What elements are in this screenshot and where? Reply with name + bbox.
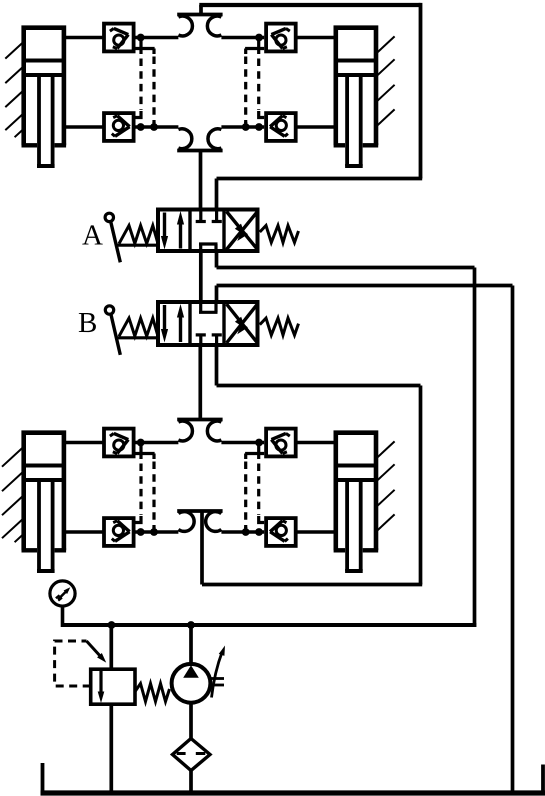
pump body (variable displacement) xyxy=(172,664,211,703)
pump regulator marks xyxy=(210,679,225,686)
filter element (dashed) xyxy=(177,752,206,755)
svg-text:A: A xyxy=(82,220,103,252)
valve A left return spring xyxy=(119,226,158,244)
junction dot pump branch xyxy=(187,621,195,629)
wire V3 outlet to top header xyxy=(221,36,264,40)
pump variable arrow xyxy=(212,646,226,698)
valve A right-position crossed arrow 1 xyxy=(227,212,258,250)
valve B left return spring xyxy=(119,318,158,336)
wire top loop lower horizontal xyxy=(217,177,423,181)
valve A centre blocked P-T bridge xyxy=(199,244,218,251)
wire V8 outlet to lower header xyxy=(221,530,264,534)
wire valve B port A down to lower manifold xyxy=(198,345,202,420)
bottom header manifold (bar and arcs) xyxy=(177,129,222,210)
tank bottom xyxy=(41,790,545,795)
valve A left-position up arrow xyxy=(177,211,184,249)
directional valve A body (3-position 4-way) xyxy=(158,210,258,252)
junction dot lower top rail right xyxy=(255,439,263,447)
pilot-operated check valve V7 (C4 cap-end) xyxy=(266,429,296,457)
wire relief valve inlet riser xyxy=(109,625,113,669)
tank left wall xyxy=(41,763,45,793)
wire top loop right vertical xyxy=(419,3,423,179)
wire V4 outlet to bottom header xyxy=(221,125,264,129)
junction dot lower bottom rail right inner xyxy=(255,528,263,536)
valve B left-position down arrow xyxy=(161,305,168,343)
pilot-operated check valve V3 (C2 cap-end) xyxy=(266,24,296,52)
valve A lever base line xyxy=(117,244,158,247)
valve B left-position up arrow xyxy=(177,304,184,342)
junction dot lower bottom rail left inner xyxy=(137,528,145,536)
wire C4 rod port to V8 xyxy=(296,530,336,534)
relief valve pilot line (dashed) xyxy=(55,641,91,686)
wire filter to tank xyxy=(189,771,193,794)
wire pump to filter xyxy=(189,703,193,740)
wire valve B upper-right elbow up xyxy=(215,286,219,303)
wire valve A port P down (to valve B) xyxy=(199,251,203,302)
top header manifold (bar and arcs) xyxy=(177,5,222,36)
wire V5 outlet to upper header xyxy=(136,441,179,445)
valve A lever arm xyxy=(111,221,121,262)
hydraulic cylinder C3 (lower left, wall-mounted) xyxy=(2,433,66,571)
lower assembly upper manifold (bar and arcs) xyxy=(177,420,222,441)
wire valve B port B elbow down xyxy=(215,345,219,386)
relief valve body xyxy=(91,669,135,704)
wire V2 outlet to bottom header xyxy=(136,125,179,129)
pressure gauge needle xyxy=(56,587,71,600)
wire relief valve outlet to tank xyxy=(109,704,113,793)
wire valve A T elbow down xyxy=(215,251,219,268)
wire lower loop right vertical xyxy=(419,386,423,585)
wire C2 cap port to V3 xyxy=(296,36,336,40)
junction dot lower top rail left xyxy=(137,439,145,447)
relief valve flow arrow xyxy=(98,671,105,703)
valve A centre blocked port B stub xyxy=(212,210,222,222)
pilot-operated check valve V5 (C3 cap-end) xyxy=(104,429,134,457)
valve B right-position crossed arrow 2 xyxy=(227,304,258,343)
svg-text:B: B xyxy=(78,307,97,339)
wire C3 cap port to V5 xyxy=(64,441,104,445)
pilot-operated check valve V2 (C1 rod-end) xyxy=(104,113,134,141)
valve B cell divider right xyxy=(222,302,225,345)
junction dot bottom rail right outer xyxy=(242,123,250,131)
junction dot top rail left xyxy=(137,34,145,42)
hydraulic cylinder C1 (upper left, wall-mounted) xyxy=(5,28,66,166)
valve A cell divider right xyxy=(222,210,225,252)
pump pressure main line xyxy=(63,623,477,627)
valve B right return spring xyxy=(260,318,299,335)
junction dot bottom rail left inner xyxy=(137,123,145,131)
relief valve pilot arrow xyxy=(87,641,107,663)
hydraulic cylinder C4 (lower right, wall-mounted) xyxy=(334,433,395,571)
valve A centre blocked port A stub xyxy=(196,210,206,222)
valve B centre blocked port stub right xyxy=(212,335,222,345)
wire pump inlet riser xyxy=(189,625,193,666)
suction filter diamond xyxy=(173,739,211,771)
wire C1 rod port to V2 xyxy=(64,125,104,129)
wire to valve A port B xyxy=(215,179,219,210)
valve A cell divider left xyxy=(188,210,191,252)
wire gauge stem xyxy=(61,606,65,627)
wire lower loop bottom horizontal xyxy=(202,583,422,587)
valve A right return spring xyxy=(260,226,299,243)
pilot-operated check valve V1 (C1 cap-end) xyxy=(104,24,134,52)
wire valve B return horizontal xyxy=(217,284,513,288)
directional valve B body (3-position 4-way) xyxy=(158,302,258,345)
valve B right-position crossed arrow 1 xyxy=(227,304,258,343)
valve A lever knob xyxy=(105,213,113,221)
wire top loop horizontal xyxy=(199,3,420,7)
valve A right-position crossed arrow 2 xyxy=(227,212,258,250)
pilot lines lower right pair xyxy=(245,443,264,533)
wire C4 cap port to V7 xyxy=(296,441,336,445)
tank right wall xyxy=(541,765,545,794)
wire C1 cap port to V1 xyxy=(64,36,104,40)
relief valve spring xyxy=(135,684,169,702)
junction dot bottom rail right inner xyxy=(255,123,263,131)
valve B centre blocked port stub left xyxy=(196,335,206,345)
pilot lines lower left pair xyxy=(136,443,155,533)
wire V1 outlet to top header xyxy=(136,36,179,40)
valve B lever base line xyxy=(117,336,158,339)
hydraulic cylinder C2 (upper right, wall-mounted) xyxy=(334,28,395,166)
valve A left-position down arrow xyxy=(161,213,168,250)
junction dot bottom rail left outer xyxy=(150,123,158,131)
valve B centre blocked A-B bridge xyxy=(199,302,218,312)
pilot lines right pair xyxy=(245,38,264,128)
lower assembly lower manifold (bar and arcs) xyxy=(177,511,222,585)
pilot-operated check valve V6 (C3 rod-end) xyxy=(104,518,134,546)
wire C2 rod port to V4 xyxy=(296,125,336,129)
junction dot relief branch xyxy=(108,621,116,629)
wire pressure trunk down right side xyxy=(473,268,477,628)
wire tank return down right edge xyxy=(511,286,515,794)
pilot lines left pair xyxy=(136,38,155,128)
junction dot lower bottom rail left outer xyxy=(150,528,158,536)
wire valve A T horizontal to right xyxy=(217,266,475,270)
junction dot lower bottom rail right outer xyxy=(242,528,250,536)
wire V6 outlet to lower header xyxy=(136,530,179,534)
pilot-operated check valve V4 (C2 rod-end) xyxy=(266,113,296,141)
wire C3 rod port to V6 xyxy=(64,530,104,534)
wire valve B port B horizontal xyxy=(217,384,421,388)
pump outlet triangle xyxy=(183,665,199,678)
pilot-operated check valve V8 (C4 rod-end) xyxy=(266,518,296,546)
valve B lever knob xyxy=(105,306,113,314)
wire V7 outlet to upper header xyxy=(221,441,264,445)
pressure gauge body xyxy=(50,581,75,606)
valve B cell divider left xyxy=(188,302,191,345)
junction dot top rail right xyxy=(255,34,263,42)
valve B lever arm xyxy=(111,314,121,355)
